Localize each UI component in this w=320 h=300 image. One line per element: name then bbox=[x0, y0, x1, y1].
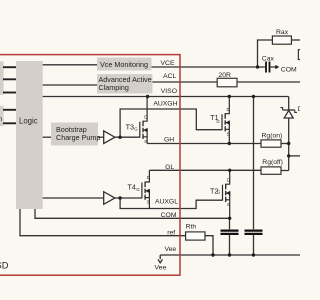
svg-text:Rth: Rth bbox=[186, 223, 197, 230]
svg-text:COM: COM bbox=[161, 212, 177, 219]
svg-text:Rg(off): Rg(off) bbox=[262, 159, 283, 166]
svg-text:G: G bbox=[134, 126, 138, 131]
svg-text:GL: GL bbox=[165, 164, 174, 171]
svg-text:T4: T4 bbox=[128, 183, 136, 192]
svg-text:Charge Pump: Charge Pump bbox=[56, 133, 100, 142]
svg-text:G: G bbox=[216, 119, 220, 124]
svg-text:Vce Monitoring: Vce Monitoring bbox=[100, 60, 148, 69]
svg-text:S: S bbox=[147, 200, 150, 205]
svg-text:COM: COM bbox=[281, 66, 297, 73]
svg-text:GH: GH bbox=[164, 136, 174, 143]
svg-text:T3: T3 bbox=[126, 123, 134, 132]
svg-text:VISO: VISO bbox=[161, 88, 177, 95]
svg-text:VCE: VCE bbox=[161, 60, 175, 67]
svg-text:Clamping: Clamping bbox=[99, 83, 129, 92]
svg-text:S: S bbox=[227, 131, 230, 136]
svg-text:S: S bbox=[144, 139, 147, 144]
svg-text:SD: SD bbox=[0, 260, 9, 270]
svg-text:20R: 20R bbox=[219, 72, 232, 79]
svg-text:D: D bbox=[144, 114, 147, 119]
svg-text:Rg(on): Rg(on) bbox=[262, 132, 283, 139]
svg-text:AUXGH: AUXGH bbox=[153, 100, 177, 107]
svg-text:AUXGL: AUXGL bbox=[155, 198, 178, 205]
svg-text:Cax: Cax bbox=[262, 56, 275, 63]
svg-text:D: D bbox=[227, 177, 230, 182]
svg-text:Rax: Rax bbox=[276, 29, 289, 36]
svg-text:G: G bbox=[136, 187, 140, 192]
svg-text:D: D bbox=[227, 107, 230, 112]
svg-text:ACL: ACL bbox=[163, 73, 176, 80]
svg-text:S: S bbox=[227, 202, 230, 207]
svg-text:ref: ref bbox=[167, 230, 175, 237]
svg-text:D: D bbox=[147, 175, 150, 180]
svg-text:D: D bbox=[298, 106, 300, 113]
svg-text:Vee: Vee bbox=[155, 264, 167, 271]
svg-text:Logic: Logic bbox=[19, 116, 38, 125]
svg-text:Vee: Vee bbox=[164, 246, 176, 253]
svg-text:G: G bbox=[217, 189, 221, 194]
